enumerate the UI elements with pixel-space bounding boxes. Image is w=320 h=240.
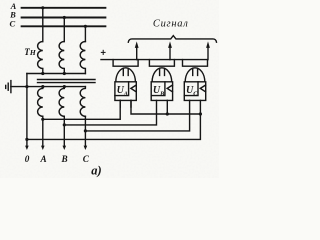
bus line A [22, 7, 106, 9]
relay U3 contact box [183, 60, 208, 67]
relay U2 contact ticks [160, 68, 165, 75]
svg-text:В: В [159, 91, 164, 98]
node dot secondary 1 top [41, 85, 44, 88]
relay U1 legs [120, 100, 131, 107]
relay U2 dome [152, 68, 172, 82]
relay U3 less-than mark [200, 85, 205, 92]
wire tap phase C [84, 26, 86, 41]
transformer TH secondary winding 2 [59, 87, 64, 117]
signal bracket [128, 36, 216, 43]
wire tap phase A [42, 8, 44, 42]
terminal arrow B [63, 146, 67, 150]
wire tap phase B [63, 18, 65, 42]
transformer TH core line 2 [38, 82, 96, 84]
transformer TH primary winding 2 [59, 42, 64, 74]
transformer TH primary winding 1 [38, 42, 43, 74]
terminal arrow C [84, 146, 88, 150]
terminal arrow A [41, 146, 45, 150]
node dot rail B start [63, 123, 66, 126]
signal arrow from U2 [169, 47, 171, 60]
svg-text:0: 0 [25, 154, 30, 164]
svg-text:А: А [40, 154, 47, 164]
wire primary star point [27, 73, 86, 75]
wire relay right legs bus [131, 100, 200, 114]
wire phase B down lead [63, 116, 65, 146]
svg-text:Сигнал: Сигнал [153, 19, 189, 30]
relay U1 label box [115, 82, 129, 96]
svg-text:С: С [9, 19, 15, 29]
svg-text:а): а) [91, 164, 101, 178]
transformer TH secondary winding 3 [80, 87, 85, 117]
relay U3 dome [185, 68, 205, 82]
relay U2 label box [151, 82, 165, 96]
transformer TH primary winding 3 [80, 42, 85, 74]
svg-text:С: С [83, 154, 90, 164]
node dot secondary 2 top [63, 85, 66, 88]
relay U2 less-than mark [167, 85, 172, 92]
node dot bus A tap [41, 6, 44, 9]
relay U3 contact ticks [193, 68, 198, 75]
svg-text:А: А [123, 91, 128, 98]
wire neutral riser [26, 74, 28, 147]
svg-text:Н: Н [29, 48, 37, 57]
node dot rail neutral start [25, 138, 28, 141]
wire grounded neutral [11, 86, 86, 88]
bus line B [22, 17, 106, 19]
svg-text:В: В [61, 154, 68, 164]
wire phase A down lead [42, 116, 44, 146]
node dot star winding 2 [63, 72, 66, 75]
wire rail phase A to relay U1 left leg [43, 100, 120, 119]
signal arrow from U3 [207, 47, 209, 60]
wire rail neutral to relay U3 right leg [27, 100, 201, 139]
node dot rail C start [84, 129, 87, 132]
node dot star winding 1 [41, 72, 44, 75]
bus line C [22, 25, 106, 27]
relay U3 label box [184, 82, 198, 96]
node dot rail A start [41, 118, 44, 121]
transformer TH core line 1 [38, 79, 96, 81]
node dot U3 right leg junction [199, 112, 202, 115]
relay U1 body [115, 82, 136, 101]
wire phase C down lead [84, 116, 86, 146]
signal arrow from U1 [136, 47, 138, 60]
wire plus supply line [101, 59, 208, 61]
relay U2 contact box [149, 60, 174, 67]
node dot U2 right leg junction [166, 112, 169, 115]
relay U1 dome [116, 68, 136, 82]
wire rail phase B to relay U2 left leg [64, 100, 156, 125]
node dot neutral riser junction [25, 85, 28, 88]
transformer TH secondary winding 1 [38, 87, 43, 117]
node dot bus C tap [84, 25, 87, 28]
relay U1 contact box [113, 60, 138, 67]
node dot bus B tap [63, 16, 66, 19]
terminal arrow 0 [25, 146, 29, 150]
plus sign [101, 50, 105, 54]
relay U1 less-than mark [131, 85, 136, 92]
wire relay U2 right leg [166, 100, 168, 114]
relay U3 body [184, 82, 205, 101]
relay U2 body [151, 82, 172, 101]
relay U1 contact ticks [123, 68, 128, 75]
ground [6, 81, 11, 93]
wire rail phase C to relay U3 left leg [85, 100, 189, 130]
paper background [0, 0, 219, 178]
